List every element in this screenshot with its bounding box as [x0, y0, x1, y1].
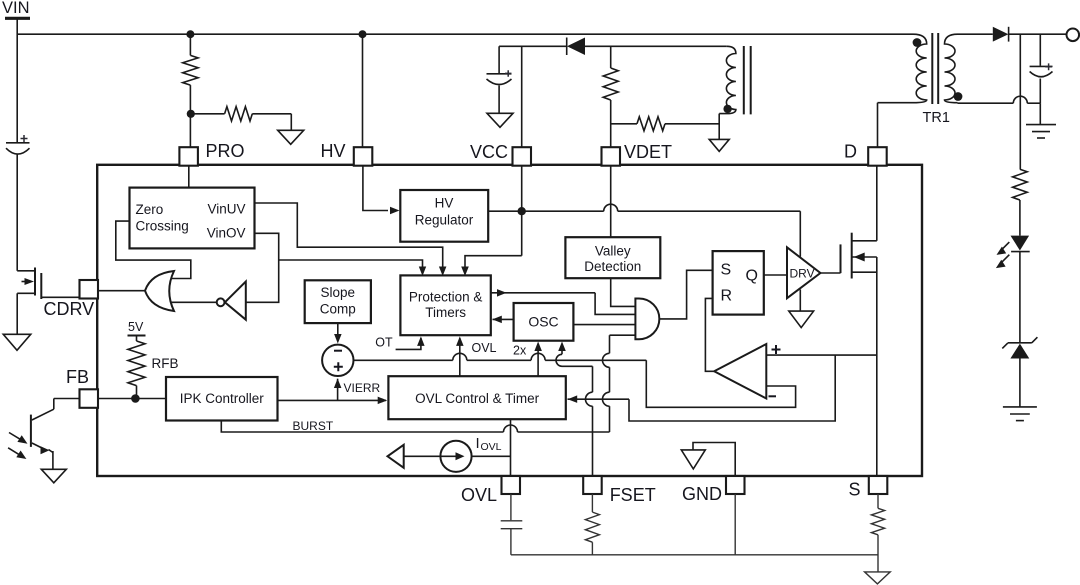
wire IPK out to OVLCT [278, 399, 386, 401]
wire VIERR to summer [337, 379, 339, 401]
svg-text:OVL: OVL [472, 341, 497, 355]
wire G1 output to CDRV pin [98, 290, 145, 292]
svg-text:VinOV: VinOV [207, 226, 246, 241]
TR1 core [931, 33, 933, 104]
wire GND pin to bottom rail [734, 494, 736, 555]
junction rail-HV [359, 30, 367, 38]
wire 5V to RFB [136, 336, 138, 342]
wire Protection out to gate G3 [491, 292, 595, 294]
wire M1 source to S pin [876, 257, 878, 476]
wire VCC cap drop [498, 46, 500, 73]
transistor M1 MOSFET [840, 244, 842, 273]
capacitor COVL [501, 520, 523, 522]
wire RFB to FB node [136, 386, 138, 399]
block Valley Detection [565, 237, 660, 278]
node output terminal [1067, 29, 1080, 42]
wire SlopeComp to summer [337, 323, 339, 341]
TR1 primary phase dot [913, 38, 922, 47]
wire DRV ground [799, 290, 801, 312]
svg-text:HV: HV [435, 196, 454, 211]
block Slope Comp [305, 280, 371, 323]
svg-text:R: R [721, 288, 733, 305]
wire CVCC to ground [498, 86, 500, 114]
ground Q1 source [3, 334, 31, 350]
wire DRV out to M1 gate [820, 272, 840, 274]
wire rail to R1 [189, 34, 191, 55]
wire VCC rail to DRV [522, 210, 604, 212]
svg-text:Q: Q [746, 268, 758, 285]
wire TR1 to D pin [877, 103, 879, 147]
ground Q2 emitter [41, 469, 66, 483]
pin VCC [513, 147, 532, 166]
svg-text:VCC: VCC [470, 142, 508, 162]
wire LED to zener [1019, 252, 1021, 343]
wire OVL pin to COVL [510, 494, 512, 520]
wire BURST [221, 421, 503, 433]
earth ground zener [1003, 406, 1037, 408]
wire ZC left output to gate G1 [116, 221, 191, 278]
diode D5 zener [1002, 337, 1037, 348]
transistor Q1 ext MOSFET [17, 270, 35, 272]
svg-text:TR1: TR1 [923, 110, 950, 126]
wire output feedback drop [1019, 34, 1021, 169]
svg-text:VinUV: VinUV [207, 202, 245, 217]
wire top rail [17, 33, 913, 35]
svg-text:IPK Controller: IPK Controller [180, 391, 265, 406]
ground CVCC [487, 113, 513, 127]
svg-text:OSC: OSC [528, 314, 558, 330]
resistor R2 [225, 107, 253, 121]
pin FB [80, 389, 99, 408]
svg-text:Zero: Zero [136, 202, 164, 217]
diode D2 VCC rectifier [566, 38, 568, 56]
svg-text:D: D [844, 142, 857, 162]
resistor R3 VDET [603, 68, 618, 100]
capacitor COUT [1030, 65, 1053, 67]
wire node to R2 [191, 113, 225, 115]
pin S [869, 476, 888, 494]
block Zero Crossing [130, 188, 255, 249]
current source IOVL [404, 455, 441, 457]
pin VDET [602, 147, 621, 166]
wire VinOV branch [246, 233, 279, 302]
wire VinOV to Protection arrow [279, 260, 423, 274]
wire Q1 gate to CDRV pin [41, 296, 79, 298]
wire G3 out to latch S [659, 270, 713, 319]
svg-text:Crossing: Crossing [136, 219, 189, 234]
svg-text:Timers: Timers [425, 305, 466, 320]
wire summer output [354, 359, 453, 361]
wire VIN vertical [16, 20, 18, 143]
wire RS to ground [877, 535, 879, 572]
resistor RFSET [585, 512, 599, 542]
wire Valley to gate G3 [611, 278, 636, 306]
wire GND pin internal [693, 443, 735, 477]
block OVL Control and Timer [388, 376, 565, 419]
svg-text:Slope: Slope [321, 285, 356, 300]
capacitor CIN polarized [6, 142, 30, 144]
wire VCC top line [499, 45, 567, 47]
wire BURST to gate G3 [609, 406, 611, 432]
block OSC [514, 303, 574, 341]
label comparator minus [769, 395, 777, 397]
IC boundary [97, 165, 922, 476]
inductor aux winding [719, 46, 736, 113]
wire FSET pin to RFSET [591, 494, 593, 512]
aux winding phase dot [723, 105, 731, 113]
resistor RS sense [871, 508, 884, 535]
wire HV pin to regulator [363, 166, 388, 211]
resistor RFB [128, 341, 145, 386]
wire COVL to bottom rail [510, 529, 512, 555]
wire R5 to LED [1019, 200, 1021, 236]
wire OT stub [396, 338, 421, 349]
svg-text:PRO: PRO [206, 141, 245, 161]
transistor Q2 phototransistor [30, 415, 32, 447]
block IPK Controller [166, 377, 278, 421]
wire FB pin to opto [54, 398, 80, 400]
svg-text:FB: FB [66, 367, 89, 387]
TR1 secondary phase dot [954, 92, 963, 101]
pin D [868, 147, 887, 166]
block Protection and Timers [400, 275, 490, 335]
ground aux winding [709, 139, 729, 151]
comparator U3 [714, 344, 766, 399]
ground DRV [789, 311, 814, 328]
pin FSET [583, 476, 602, 494]
svg-text:RFB: RFB [152, 356, 179, 371]
transformer TR1 secondary [945, 34, 958, 103]
svg-text:Regulator: Regulator [415, 213, 474, 228]
wire VCC pin vertical [521, 46, 523, 147]
wire VDET vertical upper [610, 46, 612, 68]
diode D4 opto LED [1011, 236, 1030, 251]
junction node PRO [187, 110, 195, 118]
wire bottom rail [511, 554, 878, 556]
pin HV [354, 147, 373, 166]
capacitor CVCC [487, 73, 512, 75]
svg-text:VDET: VDET [624, 142, 672, 162]
block HV Regulator [400, 190, 488, 242]
wire R1 to node [189, 85, 191, 147]
pin CDRV [80, 280, 99, 299]
wire OVL pin vertical [510, 419, 512, 476]
inverter G2 [225, 282, 246, 320]
wire OVLCT right input [568, 398, 630, 400]
resistor R4 VDET series [637, 117, 665, 131]
ground internal GND [681, 450, 705, 469]
opto light arrow 2 [8, 448, 20, 456]
wire OSC to Protection [493, 318, 514, 320]
wire OVL to Protection [459, 338, 461, 376]
pin OVL [502, 476, 521, 494]
wire VDET node to R4 [611, 123, 637, 125]
wire RFSET to bottom rail [591, 542, 593, 555]
resistor R1 [183, 55, 198, 85]
transformer TR1 primary [878, 34, 927, 103]
pin GND [726, 476, 745, 494]
pin PRO [179, 147, 198, 166]
svg-text:OT: OT [375, 335, 393, 349]
ground R2 [278, 130, 304, 144]
svg-text:I: I [476, 435, 480, 452]
svg-text:OVL Control & Timer: OVL Control & Timer [415, 391, 540, 406]
wire comparator to latch R [705, 298, 714, 371]
svg-text:Protection &: Protection & [409, 290, 483, 305]
wire bottom node to earth [1039, 103, 1041, 124]
wire 2x OVLCT to OSC [537, 345, 539, 377]
diode D3 output rectifier [993, 27, 1009, 42]
resistor R5 opto series [1013, 169, 1028, 200]
wire OSC out to gate G3 [573, 324, 635, 326]
wire R3 to VDET node [610, 100, 612, 147]
wire output cap drop [1039, 34, 1041, 66]
junction FB node [131, 394, 140, 403]
wire diode to output terminal [1009, 33, 1067, 35]
wire VCC pin vertical internal [521, 166, 523, 256]
gate G1 OR to CDRV [145, 271, 174, 311]
core aux transformer [743, 46, 745, 114]
svg-text:FSET: FSET [610, 485, 656, 505]
wire FB pin to IPK [98, 398, 166, 400]
buffer U2 DRV [787, 247, 820, 298]
svg-text:Comp: Comp [320, 302, 356, 317]
svg-text:CDRV: CDRV [44, 299, 95, 319]
wire aux to ground [718, 114, 720, 140]
svg-text:OVL: OVL [481, 441, 502, 453]
svg-text:VIN: VIN [2, 0, 30, 17]
svg-text:VIERR: VIERR [344, 381, 381, 395]
wire latch Q to DRV [764, 274, 787, 276]
earth ground output [1026, 124, 1056, 126]
svg-text:2x: 2x [513, 344, 527, 358]
wire VDET pin to Valley [610, 166, 612, 238]
wire comparator plus input [766, 354, 877, 356]
wire CIN to Q1 drain [16, 155, 18, 271]
wire G2 out to G1 input [170, 301, 217, 303]
svg-text:OVL: OVL [461, 485, 497, 505]
summing junction [322, 345, 353, 376]
wire zener to earth [1019, 359, 1021, 407]
svg-text:Detection: Detection [584, 259, 641, 274]
junction rail-PRO [186, 30, 194, 38]
svg-text:5V: 5V [128, 320, 144, 334]
wire R2 to ground [252, 113, 291, 115]
wire secondary top to diode [958, 33, 993, 35]
wire secondary bottom line [958, 102, 1014, 104]
svg-text:S: S [848, 480, 860, 500]
svg-text:DRV: DRV [790, 267, 815, 281]
wire PRO to ZeroCrossing [188, 166, 190, 188]
svg-text:S: S [721, 262, 732, 279]
ground RS [865, 572, 891, 584]
svg-text:BURST: BURST [293, 419, 334, 433]
wire R4 to aux winding [665, 123, 719, 125]
wire regulator out [488, 210, 522, 212]
wire VCC to Protection arrow [465, 256, 522, 274]
svg-text:HV: HV [320, 141, 345, 161]
junction VCC node [518, 207, 526, 215]
wire VinUV to Protection arrow [255, 203, 443, 274]
svg-text:GND: GND [682, 484, 722, 504]
wire S pin to RS [877, 494, 879, 508]
latch U1 SR [713, 251, 764, 315]
wire COUT to bottom node [1039, 79, 1041, 104]
opto light arrow 1 [9, 433, 22, 441]
wire FSET to OSC [592, 406, 594, 476]
svg-text:Valley: Valley [595, 244, 631, 259]
label comparator plus [772, 345, 781, 354]
wire rail to HV pin [362, 34, 364, 147]
gate G3 OR [635, 299, 659, 340]
